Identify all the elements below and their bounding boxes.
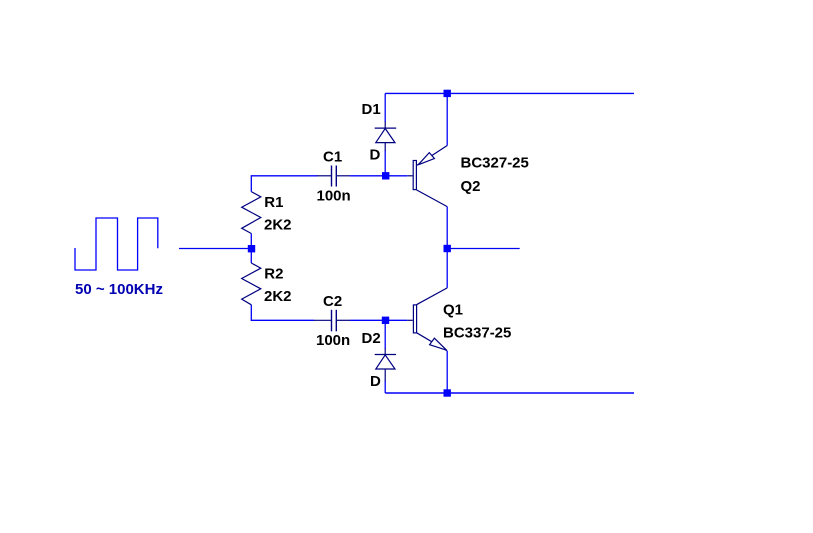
svg-text:100n: 100n — [317, 188, 351, 205]
svg-text:R2: R2 — [264, 265, 283, 282]
svg-text:C1: C1 — [323, 149, 342, 166]
label 50 ~ 100KHz — [75, 281, 163, 298]
node IN junction — [248, 245, 255, 252]
label BC337-25 — [443, 325, 511, 342]
wire R1 top to C1 left — [251, 176, 317, 192]
capacitor C2 — [314, 310, 350, 332]
svg-text:D1: D1 — [362, 101, 381, 118]
transistor Q1 base bar — [413, 305, 416, 333]
label C1 — [323, 149, 342, 166]
diode D1 — [375, 122, 397, 151]
transistor Q2 emitter + arrow (PNP) — [417, 146, 447, 166]
svg-text:R1: R1 — [264, 194, 283, 211]
wire mid node to Q1 collector — [446, 249, 448, 288]
label D2 — [362, 330, 381, 347]
label C2 — [323, 293, 342, 310]
node bottom bus junction — [444, 389, 451, 396]
label D (D1) — [370, 147, 381, 164]
svg-text:100n: 100n — [316, 332, 350, 349]
svg-text:C2: C2 — [323, 293, 342, 310]
wire C2 right to node B1 — [350, 319, 407, 321]
svg-text:50 ~ 100KHz: 50 ~ 100KHz — [75, 281, 163, 298]
resistor R2 — [242, 263, 261, 305]
svg-text:2K2: 2K2 — [264, 216, 292, 233]
svg-text:BC337-25: BC337-25 — [443, 325, 511, 342]
wire D1 branch vertical — [384, 93, 386, 175]
wire Q1 emitter to bottom bus — [446, 351, 448, 393]
label Q1 — [443, 302, 463, 319]
wire R2 bottom to C2 left — [251, 305, 314, 321]
square-wave source V1 — [75, 218, 158, 270]
wire bottom bus — [385, 392, 634, 394]
svg-text:D: D — [370, 147, 381, 164]
label R1 — [264, 194, 283, 211]
svg-text:Q2: Q2 — [461, 178, 481, 195]
wire mid rail output — [447, 248, 520, 250]
transistor Q2 collector — [417, 190, 448, 207]
svg-text:2K2: 2K2 — [264, 288, 292, 305]
wire R2 from node IN — [250, 249, 252, 264]
label 100n (C2 value) — [316, 332, 350, 349]
node top bus junction — [444, 90, 451, 97]
label 2K2 (R2 value) — [264, 288, 292, 305]
label 100n (C1 value) — [317, 188, 351, 205]
transistor Q1 emitter + arrow (NPN) — [417, 333, 448, 351]
node MID junction — [444, 245, 451, 252]
node B1 junction — [382, 317, 389, 324]
wire node IN to R1 bottom — [250, 234, 252, 249]
svg-text:D2: D2 — [362, 330, 381, 347]
transistor Q2 base pin — [407, 175, 412, 177]
capacitor C1 — [317, 166, 350, 187]
label R2 — [264, 265, 283, 282]
label BC327-25 — [461, 155, 529, 172]
label D1 — [362, 101, 381, 118]
resistor R1 — [242, 192, 261, 234]
node B2 junction — [382, 172, 389, 179]
transistor Q1 collector — [417, 288, 448, 305]
transistor Q1 base pin — [407, 319, 413, 321]
wire Q2 emitter vertical — [446, 93, 448, 145]
wire C1 right to node B2 — [350, 175, 407, 177]
wire Q2 collector to mid node — [446, 207, 448, 249]
diode D2 — [375, 349, 396, 382]
label D (D2) — [370, 373, 381, 390]
wire input to node IN — [179, 248, 251, 250]
transistor Q2 base bar — [413, 161, 416, 190]
svg-text:D: D — [370, 373, 381, 390]
label Q2 — [461, 178, 481, 195]
svg-text:BC327-25: BC327-25 — [461, 155, 529, 172]
svg-text:Q1: Q1 — [443, 302, 463, 319]
label 2K2 (R1 value) — [264, 216, 292, 233]
wire top bus — [385, 92, 634, 94]
wire D2 branch vertical — [384, 320, 386, 393]
